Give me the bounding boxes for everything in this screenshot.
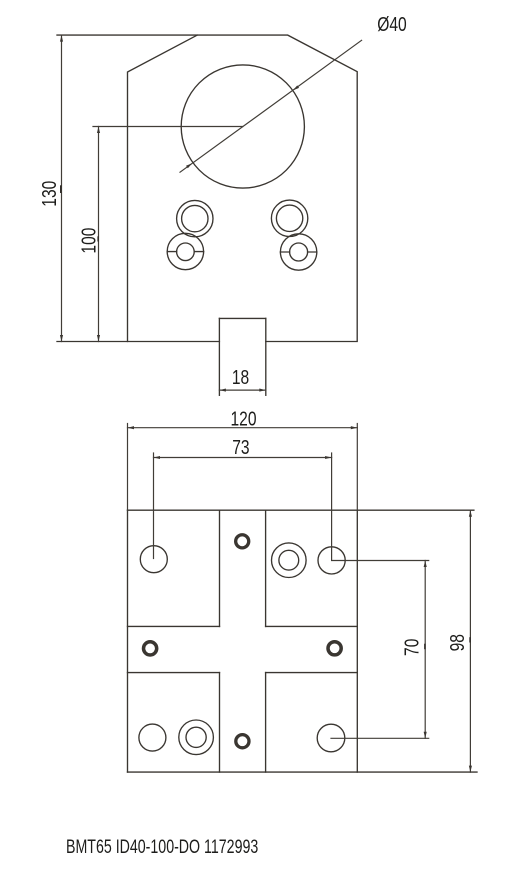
- svg-text:Ø40: Ø40: [377, 13, 406, 35]
- svg-text:100: 100: [78, 228, 100, 254]
- svg-text:120: 120: [230, 408, 256, 430]
- svg-text:18: 18: [232, 366, 249, 388]
- svg-text:BMT65 ID40-100-DO 1172993: BMT65 ID40-100-DO 1172993: [66, 836, 258, 858]
- svg-text:70: 70: [400, 639, 422, 656]
- svg-text:73: 73: [232, 436, 249, 458]
- svg-text:98: 98: [446, 634, 468, 651]
- svg-text:130: 130: [38, 181, 60, 207]
